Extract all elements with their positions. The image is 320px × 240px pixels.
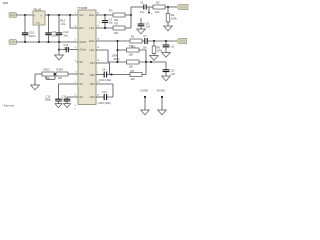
svg-text:TT2086: TT2086 — [77, 6, 88, 10]
wire pin13 jog — [96, 50, 127, 62]
node zobel R — [153, 40, 155, 42]
ground (pot) — [31, 85, 40, 90]
svg-text:LF1-: LF1- — [89, 26, 94, 30]
node riser R6 — [150, 61, 152, 63]
node regulator gnd — [38, 41, 40, 43]
wire AGND — [161, 97, 163, 110]
wire mute pin to C15 — [59, 84, 79, 99]
wire feedback vertical — [117, 41, 119, 62]
wire R3 to node — [125, 14, 131, 16]
ground (C6) — [137, 29, 146, 34]
svg-text:10k: 10k — [114, 18, 119, 22]
wire row1 — [118, 49, 127, 51]
svg-text:C5: C5 — [140, 1, 144, 5]
svg-text:C7: C7 — [143, 34, 147, 38]
node gnd-C10 — [24, 41, 26, 43]
capacitor C3 (electrolytic) — [99, 15, 114, 28]
svg-text:▸: ▸ — [41, 14, 42, 17]
pin number marks below IC — [74, 103, 99, 110]
svg-text:* See text: * See text — [2, 104, 14, 108]
svg-text:C9: C9 — [171, 44, 175, 48]
wire standby pin to C16 — [67, 97, 78, 99]
svg-text:R3: R3 — [109, 8, 113, 12]
svg-text:10u: 10u — [63, 34, 68, 38]
svg-text:828: 828 — [3, 1, 8, 5]
svg-text:10k: 10k — [61, 22, 66, 26]
node input row — [58, 49, 60, 51]
wire to ground symbol — [58, 50, 60, 55]
svg-text:R4: R4 — [171, 13, 175, 17]
capacitor C11 — [45, 15, 58, 42]
terminal CGND — [144, 96, 146, 98]
wire R2 to connector — [165, 6, 176, 8]
svg-text:100k: 100k — [171, 17, 177, 21]
wire C12 node down — [58, 42, 60, 50]
node zobel C — [165, 40, 167, 42]
svg-text:OF1: OF1 — [90, 61, 96, 65]
svg-text:10k: 10k — [129, 65, 134, 69]
wire K1 to regulator — [17, 14, 33, 16]
svg-text:Vcc: Vcc — [79, 13, 84, 17]
resistor R1 — [130, 34, 142, 48]
svg-text:100n [33k]: 100n [33k] — [99, 101, 111, 105]
svg-text:10k: 10k — [129, 53, 134, 57]
svg-text:100n: 100n — [62, 98, 68, 102]
terminal AGND — [161, 96, 163, 98]
wire pin11 right — [96, 27, 113, 29]
svg-text:1n0: 1n0 — [146, 25, 151, 29]
svg-text:78L06: 78L06 — [33, 7, 42, 11]
node gnd-C11 — [48, 41, 50, 43]
svg-text:100n: 100n — [29, 34, 36, 38]
node mix — [130, 14, 132, 16]
svg-text:CGND: CGND — [140, 89, 148, 93]
svg-text:AGnd: AGnd — [79, 48, 86, 52]
wire R6 riser — [142, 62, 146, 75]
node C3 bottom — [104, 27, 106, 29]
polarity mark — [148, 7, 153, 15]
resistor R8 — [127, 60, 140, 69]
capacitor C8 — [163, 62, 176, 76]
svg-text:Ref: Ref — [79, 26, 83, 30]
svg-text:C11: C11 — [52, 30, 57, 34]
svg-text:10k: 10k — [114, 31, 119, 35]
svg-text:AGnd: AGnd — [79, 40, 86, 44]
ground (R4) — [164, 26, 173, 31]
node input term — [167, 6, 169, 8]
ground (input) — [55, 55, 64, 60]
resistor R5 — [113, 21, 125, 35]
voltage regulator IC2 78L06 — [33, 7, 45, 25]
wire regulator output rail — [45, 14, 78, 16]
potentiometer VR13 — [35, 68, 55, 85]
ground (C16) — [64, 104, 71, 108]
resistor R12 — [60, 15, 78, 28]
wire input row to IC — [59, 49, 78, 51]
svg-text:+: + — [99, 20, 101, 24]
svg-text:▸: ▸ — [34, 14, 35, 17]
wire pin10 boot loop — [96, 84, 113, 97]
wire row2 to C8 — [139, 61, 166, 63]
svg-text:C13: C13 — [102, 90, 107, 94]
capacitor C14 (series) — [63, 43, 69, 52]
ground (CGND) — [141, 110, 150, 115]
wire C4 to R6 — [107, 74, 130, 76]
svg-text:OF4: OF4 — [90, 95, 96, 99]
resistor R9 — [152, 41, 163, 56]
node pot wiper — [54, 73, 56, 75]
node C3 top — [104, 14, 106, 16]
svg-text:100n [33k]: 100n [33k] — [99, 78, 111, 82]
wire node up to top rail — [130, 7, 132, 28]
node supply in — [24, 14, 26, 16]
node fb row1 — [117, 49, 119, 51]
wire ground rail to IC — [17, 41, 78, 43]
svg-text:C4: C4 — [102, 67, 106, 71]
connector K3 (line in) — [176, 4, 188, 9]
wire CGND — [144, 97, 146, 110]
svg-text:AGND: AGND — [157, 89, 165, 93]
svg-text:680p: 680p — [45, 98, 51, 102]
wire top rail — [131, 6, 143, 8]
svg-text:100k: 100k — [112, 54, 118, 58]
ground (C8) — [162, 76, 171, 81]
svg-text:OF2: OF2 — [90, 73, 96, 77]
resistor R4 — [166, 7, 177, 26]
svg-text:100n: 100n — [63, 46, 69, 50]
IC1 TDA2086 — [75, 6, 100, 105]
svg-text:R1: R1 — [131, 34, 135, 38]
svg-text:LF2+: LF2+ — [89, 39, 95, 43]
wire regulator ground leg — [38, 25, 40, 42]
resistor R3 — [109, 8, 125, 22]
capacitor C9 — [163, 41, 175, 53]
ground (C9) — [162, 53, 171, 58]
svg-text:1k0: 1k0 — [131, 77, 136, 81]
capacitor C7 (series) — [142, 34, 147, 50]
svg-text:SGl: SGl — [79, 72, 84, 76]
node rail-Ref — [69, 14, 71, 16]
svg-text:10k: 10k — [155, 10, 160, 14]
node fb row2 — [117, 61, 119, 63]
capacitor C16 — [62, 95, 71, 104]
svg-text:R7: R7 — [130, 44, 134, 48]
capacitor C15 — [45, 95, 62, 104]
pin stub left row5 — [77, 61, 78, 63]
svg-text:Ob: Ob — [79, 60, 83, 64]
wire pin7 row — [96, 74, 104, 76]
capacitor C13 (series) — [99, 90, 111, 105]
resistor R6 — [130, 69, 142, 81]
svg-text:100k: 100k — [157, 49, 163, 53]
capacitor C12 — [56, 15, 69, 42]
resistor R7 — [127, 44, 140, 57]
ground (C15) — [55, 104, 62, 108]
ground (R9) — [150, 56, 159, 61]
svg-text:R2: R2 — [156, 0, 160, 4]
connector K1 (supply input, 3-pin) — [9, 13, 17, 18]
wire row1 to riser — [139, 50, 146, 62]
svg-text:SC: SC — [79, 82, 83, 86]
svg-text:10u: 10u — [140, 10, 145, 14]
node rail-C12 — [58, 14, 60, 16]
svg-text:OC: OC — [79, 95, 83, 99]
capacitor C6 — [138, 18, 151, 29]
svg-text:OF3: OF3 — [90, 82, 96, 86]
resistor R2 — [153, 0, 165, 14]
node gnd-C12 — [58, 41, 60, 43]
svg-text:R5: R5 — [115, 21, 119, 25]
resistor R154 — [56, 68, 78, 81]
wire R5 to node — [125, 27, 131, 29]
wire pin14 right — [96, 14, 113, 16]
capacitor C10 — [22, 15, 36, 42]
wire pin15 jog — [96, 63, 110, 75]
connector K4 (output) — [176, 38, 186, 43]
svg-text:560p: 560p — [114, 57, 120, 61]
ground (AGND) — [158, 110, 167, 115]
capacitor C5 (series) — [140, 1, 146, 14]
node rail-C11 — [48, 14, 50, 16]
node feedback — [117, 40, 119, 42]
capacitor C4 (series) — [102, 67, 107, 77]
svg-text:LF2-: LF2- — [89, 48, 94, 52]
wire C5 to R2 — [147, 6, 153, 8]
wire C7 to connector — [148, 40, 176, 42]
svg-text:10u: 10u — [142, 46, 147, 50]
node pin15 join — [111, 74, 113, 76]
svg-text:R154: R154 — [57, 68, 64, 72]
svg-text:R12: R12 — [60, 19, 65, 23]
connector K2 (2-pin) — [9, 40, 17, 45]
svg-text:1n0: 1n0 — [171, 72, 176, 76]
svg-text:VR13: VR13 — [43, 68, 50, 72]
node riser R7 — [145, 61, 147, 63]
svg-text:C12: C12 — [63, 30, 68, 34]
wire output pin16 — [96, 40, 144, 42]
wire pin12 row — [96, 96, 104, 98]
svg-text:LF1+: LF1+ — [89, 13, 95, 17]
